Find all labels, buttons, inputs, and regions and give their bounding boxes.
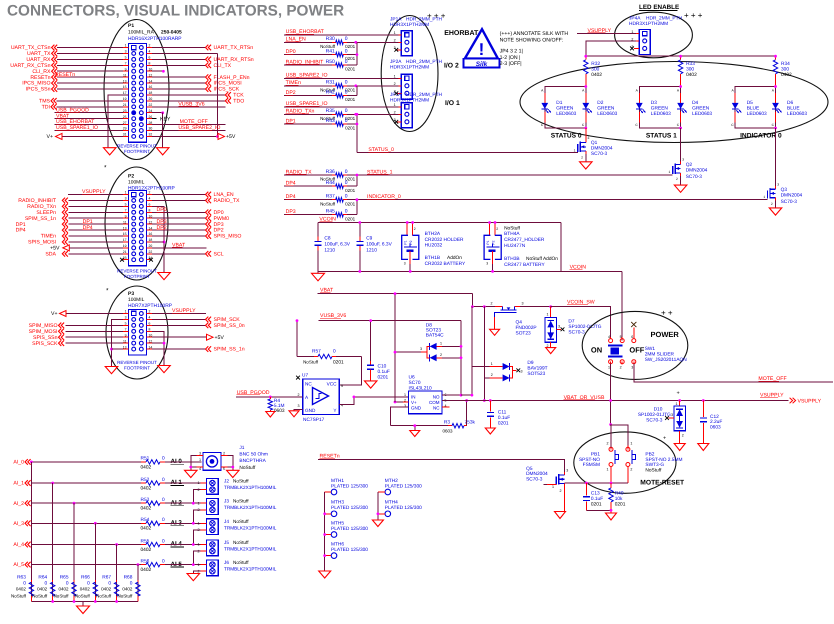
mounting hole MTH2	[385, 489, 391, 495]
svg-text:300: 300	[686, 67, 694, 73]
svg-text:SCL: SCL	[214, 251, 224, 257]
svg-text:AI_4: AI_4	[13, 542, 24, 548]
P1 pin27 wire USB_EHORBAT	[55, 124, 124, 126]
svg-text:VCC: VCC	[327, 382, 338, 387]
wire LED top rail	[586, 55, 776, 57]
svg-text:SW1: SW1	[645, 346, 656, 352]
wire USB_EHORBAT to JP1A pin1	[284, 34, 398, 36]
wire R41 R50 join LNA_EN row	[356, 42, 358, 65]
ground below R40	[606, 513, 617, 520]
capacitor C8	[317, 223, 319, 237]
svg-text:2: 2	[771, 202, 773, 206]
wire PB tops	[611, 425, 628, 448]
svg-text:V+: V+	[411, 400, 417, 405]
P1 pin26 KEY	[147, 118, 153, 120]
svg-text:SP1002-01JTG: SP1002-01JTG	[638, 412, 671, 418]
svg-text:3: 3	[682, 158, 684, 162]
svg-text:HDR16X2PTH100RARP: HDR16X2PTH100RARP	[128, 36, 182, 42]
wire resistor bank bottom rail	[31, 601, 137, 603]
ground below D7	[550, 342, 552, 347]
svg-text:R68: R68	[124, 575, 133, 581]
P1 pin21 wire TDI	[57, 106, 124, 108]
svg-text:R35: R35	[326, 108, 335, 114]
svg-text:SPIS_MISO: SPIS_MISO	[214, 234, 242, 240]
svg-text:TDO: TDO	[233, 98, 244, 104]
svg-text:SPIM_SS_0n: SPIM_SS_0n	[214, 323, 245, 329]
svg-text:LED0603: LED0603	[651, 111, 671, 117]
svg-text:PB2: PB2	[645, 451, 654, 457]
warning triangle Silk note	[465, 29, 498, 58]
svg-text:3: 3	[631, 366, 633, 370]
svg-text:0402: 0402	[37, 587, 48, 592]
svg-text:LED0603: LED0603	[692, 111, 712, 117]
svg-text:300: 300	[591, 67, 599, 73]
resistor R35 RADIO_TXn row	[284, 113, 332, 115]
svg-text:Q2: Q2	[686, 162, 693, 168]
svg-text:R33: R33	[686, 61, 695, 67]
wire AI_0 to J1	[165, 461, 183, 463]
svg-text:SPIM_SS_1n: SPIM_SS_1n	[214, 347, 245, 353]
LED D2	[585, 93, 587, 103]
svg-text:1: 1	[197, 522, 199, 526]
svg-text:R56: R56	[141, 558, 150, 564]
svg-text:R57: R57	[312, 349, 321, 355]
svg-text:2: 2	[581, 156, 583, 160]
resistor R64	[52, 580, 54, 583]
svg-text:R34: R34	[781, 61, 790, 67]
svg-text:AI_1: AI_1	[13, 481, 24, 487]
svg-text:3: 3	[522, 301, 524, 305]
P1 pin17 wire to ground	[108, 95, 129, 148]
svg-text:GND: GND	[411, 406, 422, 411]
svg-text:FND002P: FND002P	[516, 325, 537, 331]
P3 pin13 wire	[123, 348, 129, 350]
net AI_2 port	[25, 500, 28, 506]
resistor R67	[116, 580, 118, 583]
svg-text:JP2A: JP2A	[390, 59, 402, 65]
svg-text:BLUE: BLUE	[747, 106, 760, 112]
P1 pin16 wire IPCS_SCK	[147, 88, 153, 90]
wire AI_5	[32, 564, 141, 566]
LED D6	[775, 93, 777, 103]
svg-text:Q5: Q5	[526, 466, 533, 472]
svg-text:SC70-3: SC70-3	[568, 329, 585, 335]
jumper JP1A	[401, 31, 412, 56]
noconnect X U7 NC	[296, 376, 300, 380]
svg-text:I/O 1: I/O 1	[445, 100, 460, 107]
svg-text:D5: D5	[747, 100, 753, 106]
svg-text:2-3 |OFF|: 2-3 |OFF|	[500, 61, 522, 67]
P1 pin12 wire FLASH_P_ENn	[147, 76, 153, 78]
connector J4 TRMBLK2X1PTH100MIL	[207, 519, 219, 535]
svg-text:BAT54C: BAT54C	[426, 333, 444, 339]
svg-text:0402: 0402	[141, 464, 152, 470]
svg-text:HDR_2MM_PTH: HDR_2MM_PTH	[646, 16, 683, 22]
ground below C11	[485, 428, 495, 434]
wire VBAT	[318, 293, 473, 295]
U6 V+ stub	[395, 401, 403, 403]
net AI_4 port	[25, 542, 28, 548]
wire Q5 gate	[544, 484, 548, 486]
svg-text:100uF, 6.3V: 100uF, 6.3V	[366, 242, 392, 248]
svg-text:C12: C12	[710, 414, 719, 420]
svg-text:VSUPPLY: VSUPPLY	[798, 398, 822, 404]
P3 pin4 wire SPIM_SCK	[147, 318, 153, 320]
svg-text:R55: R55	[141, 538, 150, 544]
svg-text:(+++) ANNOTATE SILK WITH: (+++) ANNOTATE SILK WITH	[500, 31, 569, 37]
resistor R57	[297, 356, 314, 358]
diode D9 BAV199T	[471, 307, 473, 367]
wire STATUS_1	[347, 174, 357, 176]
svg-text:5: 5	[620, 335, 622, 339]
svg-text:Q3: Q3	[781, 187, 788, 193]
svg-text:+: +	[663, 436, 666, 442]
junction P2 pin18	[163, 241, 166, 244]
ground at J1 right	[227, 470, 240, 477]
P3 pin10 wire +5V	[147, 336, 153, 338]
pushbutton PB2 SWT3-G	[626, 447, 630, 451]
LED D5	[734, 93, 736, 103]
svg-text:10k: 10k	[615, 496, 623, 502]
junction AI_0	[30, 461, 33, 464]
svg-text:SC70-3: SC70-3	[526, 477, 543, 483]
svg-text:HDR_2MM_PTH: HDR_2MM_PTH	[406, 59, 443, 65]
connector P1 ellipse	[104, 20, 169, 160]
svg-text:2: 2	[491, 373, 493, 377]
pushbutton PB1 FSMSM	[609, 447, 613, 451]
svg-text:4: 4	[608, 335, 610, 339]
resistor R54	[141, 522, 146, 524]
svg-text:0: 0	[345, 89, 348, 95]
P2 pin20 wire VBAT	[147, 247, 153, 249]
svg-text:0402: 0402	[101, 587, 112, 592]
resistor R52	[141, 482, 146, 484]
svg-text:CR2477 BATTERY: CR2477 BATTERY	[504, 262, 545, 268]
svg-text:AI_0: AI_0	[13, 460, 24, 466]
wire VUSB to R57	[296, 321, 298, 357]
svg-text:J1: J1	[239, 445, 244, 451]
wire VBAT rail to switch	[472, 306, 495, 308]
P1 pin10 stub	[147, 70, 153, 72]
svg-text:NoStuff AddOn: NoStuff AddOn	[526, 256, 558, 262]
svg-text:NC: NC	[305, 382, 312, 387]
svg-text:NoStuff: NoStuff	[233, 519, 249, 524]
wire SW1 pin3 to MOTE_OFF	[634, 364, 833, 382]
connector J3 TRMBLK2X1PTH100MIL	[207, 499, 219, 515]
svg-text:SPST-NO 2.5MM: SPST-NO 2.5MM	[645, 457, 682, 463]
svg-text:SW_JS202011AQN: SW_JS202011AQN	[645, 357, 688, 363]
svg-text:D4: D4	[692, 100, 698, 106]
svg-text:1: 1	[547, 312, 549, 316]
wire U6 NO	[442, 394, 461, 396]
resistor R41 DP0 row	[284, 54, 332, 56]
svg-text:250-0405: 250-0405	[161, 30, 182, 36]
wire VSUPPLY to JP4A pin1	[577, 32, 636, 34]
ground below R4	[266, 412, 275, 418]
resistor R50 RADIO_INHIBIT row	[284, 64, 332, 66]
svg-text:0201: 0201	[345, 97, 356, 102]
svg-text:LED0603: LED0603	[556, 111, 576, 117]
svg-text:DMN2004: DMN2004	[526, 471, 548, 477]
ground below J6	[187, 574, 200, 581]
P2 pin14 wire DP2	[147, 229, 153, 231]
svg-text:HDR12X2PTH100RP: HDR12X2PTH100RP	[128, 185, 175, 191]
svg-text:MTH4: MTH4	[385, 500, 398, 506]
svg-text:0: 0	[162, 538, 165, 544]
svg-text:PB1: PB1	[591, 451, 600, 457]
resistor R33	[680, 56, 682, 60]
svg-text:2MM SLIDER: 2MM SLIDER	[645, 351, 675, 357]
svg-text:0: 0	[345, 118, 348, 124]
ground at P2 right	[158, 273, 171, 280]
resistor R3 753k	[391, 425, 448, 427]
P2 pin5 wire RADIO_TXn	[69, 205, 124, 207]
wire J2 pin2 chain	[193, 490, 200, 504]
P2 pin11 wire DP1	[69, 223, 124, 225]
X above SW1 pin6	[633, 328, 635, 339]
svg-text:KEY: KEY	[160, 116, 171, 122]
svg-text:2: 2	[414, 227, 416, 231]
svg-text:LED ENABLE: LED ENABLE	[639, 4, 679, 11]
connector P1 header HDR16X2PTH100RARP	[129, 44, 147, 143]
svg-text:J5: J5	[224, 540, 229, 545]
wire AI_3 to J4	[165, 522, 202, 524]
P2 pin16 wire SPIS_MISO	[147, 235, 153, 237]
svg-text:SP1002-01JTG: SP1002-01JTG	[568, 324, 601, 330]
capacitor C11	[489, 399, 492, 402]
wire JP4A pin2 to LED rail	[586, 41, 636, 56]
svg-text:1210: 1210	[324, 248, 335, 254]
svg-text:TRMBLK2X1PTH100MIL: TRMBLK2X1PTH100MIL	[224, 567, 277, 572]
resistor R55	[141, 544, 146, 546]
svg-text:GREEN: GREEN	[651, 106, 669, 112]
svg-text:TDI: TDI	[42, 104, 50, 110]
junction AI_1	[51, 482, 54, 485]
vertical wire AI_2 to resistor bank	[73, 503, 75, 601]
svg-text:R65: R65	[60, 575, 69, 581]
svg-text:MTH5: MTH5	[331, 520, 344, 526]
resistor R51	[141, 461, 146, 463]
svg-text:IPCS_SSn: IPCS_SSn	[26, 87, 51, 93]
svg-text:2: 2	[682, 434, 684, 438]
svg-text:0: 0	[345, 36, 348, 42]
svg-text:1: 1	[574, 149, 576, 153]
svg-text:TRMBLK2X1PTH100MIL: TRMBLK2X1PTH100MIL	[224, 547, 277, 552]
svg-text:BTH4A: BTH4A	[504, 231, 520, 237]
wire VUSB_3V6	[319, 320, 461, 322]
LED D4	[680, 93, 682, 103]
wire J3 pin2 chain	[193, 510, 200, 524]
svg-text:NoStuff: NoStuff	[239, 465, 256, 471]
svg-text:R66: R66	[81, 575, 90, 581]
svg-text:+5V: +5V	[215, 335, 225, 341]
P1 pin24 stub	[147, 112, 153, 114]
connector P2 ellipse	[105, 167, 168, 280]
svg-text:2: 2	[630, 467, 632, 471]
U7 GND to ground	[294, 410, 303, 411]
resistor R65	[73, 580, 75, 583]
transistor Q2 DMN2004	[680, 128, 682, 161]
wire AI_1 to J2	[165, 482, 202, 484]
svg-text:OFF: OFF	[629, 345, 644, 354]
svg-text:MOTE-RESET: MOTE-RESET	[640, 480, 685, 487]
P2 pin3 wire RADIO_INHIBIT	[69, 199, 124, 201]
jumper JP3A	[401, 103, 412, 128]
P1 pin8 wire CLI_TX	[147, 64, 153, 66]
svg-text:CLI_TX: CLI_TX	[214, 63, 232, 69]
svg-text:0: 0	[345, 194, 348, 200]
net AI_5 port	[25, 562, 28, 568]
svg-text:1: 1	[607, 467, 609, 471]
svg-text:JP1A: JP1A	[390, 17, 402, 23]
svg-text:MTH6: MTH6	[331, 541, 344, 547]
wire MTH2 column	[377, 492, 379, 520]
wire VBAT_OR_VUSB rail	[442, 400, 788, 402]
resistor R34	[775, 56, 777, 60]
svg-text:SWT3-G: SWT3-G	[645, 462, 664, 468]
LED D3	[638, 93, 640, 103]
ground below Q2	[680, 176, 682, 185]
svg-text:P3: P3	[128, 291, 134, 297]
svg-text:3: 3	[420, 347, 422, 351]
capacitor C9	[359, 223, 361, 237]
ground below D10	[679, 431, 681, 444]
svg-text:3: 3	[588, 136, 590, 140]
ground below C10	[364, 381, 377, 388]
mote reset ellipse	[574, 432, 676, 493]
wire battery bottom rail	[318, 270, 622, 272]
svg-text:RADIO_TX: RADIO_TX	[214, 198, 240, 204]
svg-text:HU2477N: HU2477N	[504, 243, 526, 249]
P2 pin24 stub noconnect	[147, 259, 152, 261]
svg-text:SOT523: SOT523	[527, 371, 545, 377]
svg-text:300: 300	[781, 67, 789, 73]
vertical wire AI_1 to resistor bank	[52, 483, 54, 602]
wire D8 pin2	[437, 357, 442, 359]
svg-text:ON: ON	[591, 345, 602, 354]
mounting hole MTH4	[385, 511, 391, 517]
svg-text:R32: R32	[591, 61, 600, 67]
connector J6 TRMBLK2X1PTH100MIL	[207, 560, 219, 576]
svg-text:AddOn: AddOn	[447, 255, 462, 261]
svg-text:AI_5: AI_5	[13, 562, 24, 568]
net AI_0 port	[25, 459, 28, 465]
P2 pin17 wire SPIS_MOSI	[69, 241, 124, 243]
svg-text:BLUE: BLUE	[787, 106, 800, 112]
capacitor C12	[702, 399, 705, 402]
wire D8 pin1	[437, 345, 442, 347]
P2 pin12 wire DP3	[147, 223, 153, 225]
svg-text:NoStuff: NoStuff	[11, 594, 27, 599]
svg-text:D10: D10	[654, 407, 663, 413]
wire D8 pin3 to VBAT	[394, 294, 396, 402]
ground at J1 left	[185, 470, 198, 477]
P3 pin6 wire SPIM_SS_0n	[147, 324, 153, 326]
svg-text:1: 1	[552, 485, 554, 489]
wire VCOIN_SW to SW1 pin4	[551, 307, 611, 338]
svg-text:R53: R53	[141, 497, 150, 503]
wire R42 join TIMEn row	[356, 86, 358, 96]
svg-text:0: 0	[162, 558, 165, 564]
svg-text:1: 1	[197, 501, 199, 505]
ground below MTH column	[319, 571, 331, 578]
svg-text:REVERSE PINOUT: REVERSE PINOUT	[117, 360, 157, 365]
svg-text:HU2032: HU2032	[425, 243, 443, 249]
junction AI_5	[137, 563, 140, 566]
net AI_1 port	[25, 480, 28, 486]
svg-text:2: 2	[547, 344, 549, 348]
vertical wire AI_5 to resistor bank	[137, 565, 139, 602]
svg-text:J6: J6	[224, 560, 229, 565]
svg-text:!: !	[479, 40, 485, 59]
transistor Q1 DMN2004	[585, 128, 587, 140]
wire AI_4	[32, 544, 141, 546]
wire VCOIN down to switch	[621, 271, 623, 340]
svg-text:PLATED 125/300: PLATED 125/300	[385, 505, 422, 511]
P1 pin23 wire USB_PGOOD	[55, 112, 124, 114]
junction AI_2	[73, 502, 76, 505]
svg-text:0: 0	[345, 48, 348, 54]
svg-text:2: 2	[496, 227, 498, 231]
vertical wire AI_0 to resistor bank	[30, 462, 32, 602]
P2 pin6 wire to ground	[147, 205, 153, 207]
svg-text:+5V: +5V	[226, 134, 236, 140]
P2 pin19 wire +5V	[69, 247, 123, 249]
svg-text:I/O 2: I/O 2	[444, 63, 459, 70]
junction P3 pin12	[147, 342, 153, 344]
svg-text:0402: 0402	[80, 587, 91, 592]
svg-text:0402: 0402	[141, 485, 152, 491]
svg-text:3: 3	[298, 404, 300, 408]
P1 pin30 wire USB_SPARE2_IO	[147, 130, 153, 132]
svg-text:HDR7X2PTH100RP: HDR7X2PTH100RP	[128, 303, 172, 309]
svg-text:0402: 0402	[781, 72, 792, 78]
svg-text:0: 0	[345, 80, 348, 86]
svg-text:D7: D7	[568, 319, 574, 325]
svg-text:C10: C10	[378, 363, 387, 369]
ground below resistor bank	[82, 602, 84, 607]
svg-text:2: 2	[560, 489, 562, 493]
svg-text:HDR3X1PTH2MM: HDR3X1PTH2MM	[629, 21, 668, 27]
connector P2 header HDR12X2PTH100RP	[129, 191, 147, 266]
svg-text:0.1uF: 0.1uF	[498, 415, 510, 421]
P3 pin7 wire SPIM_MOSI	[66, 330, 124, 332]
svg-text:0402: 0402	[141, 526, 152, 532]
P1 pin3 wire UART_TX	[57, 52, 123, 54]
P1 pin19 wire TMS	[57, 100, 124, 102]
wire AI_2 to J3	[165, 502, 202, 504]
svg-text:2: 2	[491, 301, 493, 305]
svg-text:GND: GND	[305, 408, 316, 413]
svg-text:1: 1	[608, 366, 610, 370]
svg-text:0: 0	[345, 59, 348, 65]
svg-text:5: 5	[223, 467, 225, 471]
svg-text:SPST-NO: SPST-NO	[579, 457, 600, 463]
svg-text:DMN2004: DMN2004	[591, 146, 613, 152]
svg-text:1: 1	[491, 362, 493, 366]
svg-text:GREEN: GREEN	[692, 106, 710, 112]
svg-text:0402: 0402	[16, 587, 27, 592]
svg-text:NoStuff: NoStuff	[645, 468, 662, 474]
svg-text:NoStuff: NoStuff	[117, 594, 133, 599]
svg-text:HDR3X1PTH2MM: HDR3X1PTH2MM	[390, 22, 429, 28]
P2 pin7 wire SLEEPn	[69, 211, 124, 213]
svg-text:0: 0	[345, 180, 348, 186]
P3 pin1 wire V+	[66, 313, 123, 315]
svg-text:1: 1	[440, 341, 442, 345]
svg-text:NoStuff: NoStuff	[96, 594, 112, 599]
P2 pin2 wire LNA_EN	[147, 194, 153, 196]
